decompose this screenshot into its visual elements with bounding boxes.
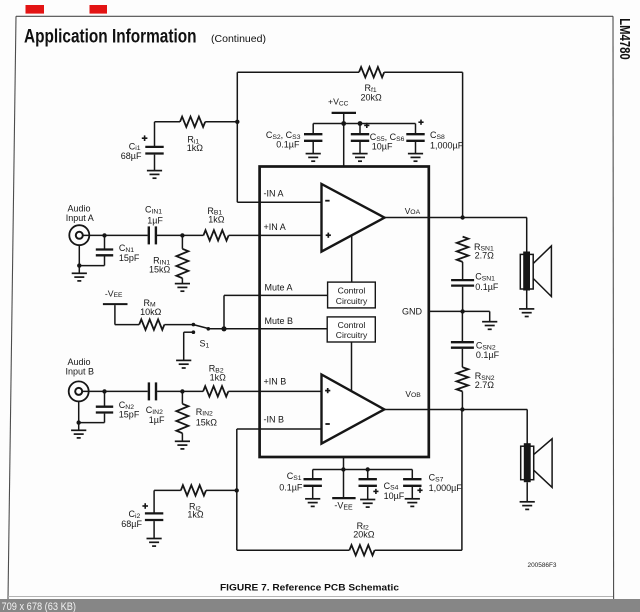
- wire VOA to speaker1 drop: [526, 218, 528, 253]
- svg-text:2.7Ω: 2.7Ω: [475, 251, 495, 261]
- capacitor CS5 CS6: [351, 134, 369, 141]
- capacitor CN2 stem: [104, 391, 106, 405]
- svg-text:10µF: 10µF: [372, 142, 393, 152]
- op-amp U1B triangle: [322, 375, 385, 444]
- wire CSN2 to RSN2: [461, 349, 463, 367]
- supply -VEE rail bar: [103, 303, 128, 305]
- svg-text:0.1µF: 0.1µF: [475, 282, 499, 292]
- svg-text:10kΩ: 10kΩ: [140, 307, 162, 317]
- svg-text:Mute B: Mute B: [265, 316, 294, 326]
- node junction RIN2 tap: [180, 389, 184, 393]
- svg-text:20kΩ: 20kΩ: [361, 93, 383, 103]
- resistor RIN2 stem bottom: [181, 433, 183, 441]
- switch S1 contact: [207, 327, 211, 331]
- page frame right: [612, 16, 615, 599]
- speaker 1 horn: [533, 246, 551, 297]
- capacitor CS7 polarity plus: [417, 488, 422, 493]
- op-amp U1B non-inverting input plus: [325, 388, 330, 393]
- wire -VEE to RM: [115, 324, 139, 326]
- svg-text:2.7Ω: 2.7Ω: [475, 380, 495, 390]
- capacitor CS1: [304, 479, 322, 486]
- wire CS5 stem: [359, 124, 361, 134]
- ground below CS4: [360, 500, 375, 508]
- wire mute A horizontal: [224, 294, 328, 296]
- capacitor CS7: [403, 479, 421, 486]
- capacitor CN1 stem: [104, 235, 106, 248]
- svg-text:-IN A: -IN A: [264, 189, 284, 199]
- capacitor CSN2: [451, 342, 474, 348]
- switch S1 pole: [192, 323, 196, 327]
- svg-text:10µF: 10µF: [384, 491, 405, 501]
- capacitor Ci2 polarity plus: [142, 503, 148, 509]
- node junction mute: [221, 326, 226, 331]
- svg-text:+IN A: +IN A: [264, 222, 286, 232]
- node junction CS5 tap: [358, 121, 363, 126]
- wire CS2 stem: [312, 124, 314, 134]
- node junction VCC drop: [341, 121, 346, 126]
- capacitor CS2 CS3: [304, 134, 322, 141]
- node junction VOB: [460, 407, 464, 411]
- svg-text:1µF: 1µF: [147, 216, 163, 226]
- svg-text:1,000µF: 1,000µF: [430, 141, 464, 151]
- svg-text:1µF: 1µF: [149, 415, 165, 425]
- svg-text:Audio: Audio: [67, 203, 90, 213]
- svg-text:15pF: 15pF: [119, 253, 140, 263]
- capacitor CIN2: [149, 382, 156, 400]
- node junction VEE drop: [341, 467, 345, 471]
- svg-text:15pF: 15pF: [119, 409, 140, 419]
- svg-text:Audio: Audio: [67, 357, 90, 367]
- wire top feedback right segment: [384, 71, 462, 73]
- resistor Ri2: [181, 485, 206, 495]
- wire CS8 stem bottom: [415, 142, 417, 153]
- wire Ri1 right: [205, 121, 237, 123]
- wire top feedback left segment: [237, 71, 359, 73]
- page frame top: [16, 15, 613, 17]
- ground at GND pin: [482, 322, 497, 330]
- resistor RIN1 stem bottom: [181, 278, 183, 283]
- wire feedback right vertical: [462, 72, 464, 217]
- node junction RIN1 tap: [180, 233, 184, 237]
- capacitor Ci1 polarity plus: [142, 135, 148, 141]
- wire Ci2 stem top: [153, 490, 155, 513]
- wire op-amp A to control box A: [351, 236, 353, 283]
- node junction jack A ground: [77, 263, 81, 267]
- op-amp IC U1 outline: [260, 167, 429, 458]
- speaker 2 driver: [521, 446, 534, 480]
- resistor RIN2: [176, 404, 188, 433]
- wire mute riser: [223, 295, 225, 328]
- svg-text:Circuitry: Circuitry: [336, 296, 368, 306]
- wire RSN1 bottom: [462, 262, 464, 279]
- wire CS4 stem bottom: [367, 487, 369, 499]
- capacitor CSN1: [451, 280, 474, 286]
- wire RSN2 bottom: [461, 391, 463, 409]
- resistor RSN1: [457, 237, 469, 262]
- red mark 2 (viewer artifact): [90, 5, 108, 14]
- capacitor CS8: [406, 134, 424, 141]
- node junction Ri1/-INA: [235, 120, 239, 124]
- op-amp U1A non-inverting input plus: [326, 233, 331, 238]
- resistor RB1: [203, 230, 228, 240]
- speaker 2 horn: [534, 439, 552, 488]
- capacitor CS5 CS6 polarity plus: [364, 123, 369, 128]
- node junction CN2 tap: [102, 389, 106, 393]
- wire VOA output: [385, 217, 527, 219]
- svg-text:1kΩ: 1kΩ: [187, 510, 204, 520]
- node junction CN1 tap: [102, 233, 106, 237]
- svg-text:Circuitry: Circuitry: [336, 330, 368, 340]
- ground below jack B: [71, 430, 86, 438]
- resistor RM: [139, 319, 164, 329]
- wire -IN A horizontal: [237, 201, 321, 203]
- wire -VEE drop: [114, 305, 116, 325]
- svg-text:Input A: Input A: [66, 213, 94, 223]
- node junction jack B ground: [77, 420, 81, 424]
- resistor Rf1: [359, 67, 384, 77]
- ground below RIN2: [175, 441, 190, 449]
- svg-text:15kΩ: 15kΩ: [196, 417, 218, 427]
- svg-text:Mute A: Mute A: [265, 282, 293, 292]
- svg-text:+IN B: +IN B: [264, 377, 287, 387]
- svg-text:GND: GND: [402, 307, 423, 317]
- RCA jack A outer: [69, 225, 89, 245]
- ground below CS8: [408, 154, 423, 162]
- wire Ri1 left: [155, 121, 181, 123]
- resistor RIN1: [176, 249, 188, 278]
- ground below speaker 1: [519, 309, 534, 317]
- wire -IN B horizontal: [237, 428, 322, 430]
- node junction VOA: [460, 215, 464, 219]
- wire VOB feedback vertical: [461, 410, 463, 551]
- wire Ri2 left: [154, 489, 181, 491]
- ground below jack A: [72, 273, 87, 281]
- svg-text:709 x 678 (63 KB): 709 x 678 (63 KB): [2, 601, 77, 612]
- wire bottom feedback right: [375, 549, 462, 551]
- resistor RIN1 stem top: [181, 235, 183, 248]
- wire VOB output: [384, 409, 527, 411]
- capacitor CS4: [359, 479, 377, 486]
- ground below speaker 2: [520, 502, 535, 510]
- wire control box B to op-amp B: [351, 342, 353, 391]
- svg-text:-IN B: -IN B: [264, 415, 285, 425]
- wire CS7 stem bottom: [411, 487, 413, 499]
- wire speaker 1 ground stem: [526, 291, 528, 309]
- supply +VCC rail bar: [332, 112, 356, 114]
- svg-text:1kΩ: 1kΩ: [187, 143, 204, 153]
- wire CS2 stem bottom: [312, 142, 314, 153]
- svg-text:1kΩ: 1kΩ: [208, 214, 225, 224]
- svg-text:1kΩ: 1kΩ: [210, 372, 227, 382]
- capacitor Ci1: [145, 147, 163, 154]
- wire GND to CSN2: [461, 311, 463, 341]
- wire RB2 to IC: [228, 390, 321, 392]
- capacitor CN2: [96, 407, 113, 413]
- wire jack A to CIN1: [83, 234, 148, 236]
- svg-text:68µF: 68µF: [121, 519, 142, 529]
- wire bottom feedback left: [237, 549, 350, 551]
- wire VCC distribution rail: [313, 123, 415, 125]
- svg-text:1,000µF: 1,000µF: [429, 483, 463, 493]
- wire VOB to speaker2 drop: [526, 410, 528, 445]
- resistor RSN2: [457, 367, 469, 391]
- wire VCC drop: [343, 114, 345, 167]
- op-amp U1A triangle: [322, 184, 385, 252]
- wire -IN B vertical: [236, 429, 238, 550]
- svg-text:FIGURE 7. Reference PCB Schema: FIGURE 7. Reference PCB Schematic: [220, 583, 399, 593]
- op-amp U1B inverting input minus: [325, 423, 329, 425]
- control circuitry box A: [328, 282, 376, 308]
- wire CN2 bottom: [104, 414, 106, 423]
- svg-text:200586F3: 200586F3: [528, 562, 558, 569]
- page frame bottom faint: [8, 596, 613, 598]
- capacitor CN1: [96, 250, 113, 256]
- wire CN1 bottom: [104, 256, 106, 265]
- wire CS8 stem: [415, 124, 417, 134]
- ground below Ci2: [147, 539, 162, 547]
- switch S1 throw2 wire: [184, 331, 194, 333]
- svg-text:Control: Control: [338, 286, 366, 296]
- svg-text:LM4780: LM4780: [616, 18, 633, 60]
- capacitor CS4 polarity plus: [373, 489, 378, 494]
- wire CS1 stem: [312, 470, 314, 479]
- ground below CS5 CS6: [352, 154, 367, 162]
- wire CS1 stem bottom: [312, 487, 314, 499]
- wire GND down leg: [489, 311, 491, 321]
- resistor RIN2 stem top: [181, 391, 183, 403]
- wire RM to switch: [164, 324, 193, 326]
- ground below RIN1: [175, 284, 190, 292]
- wire CIN2 to RB2: [157, 390, 203, 392]
- wire CS7 stem: [411, 470, 413, 479]
- wire Ci1 stem top: [154, 122, 156, 146]
- wire jack B ground stem: [78, 401, 80, 430]
- wire CS5 stem bottom: [359, 142, 361, 153]
- wire jack B to CIN2: [82, 390, 147, 392]
- red mark 1 (viewer artifact top-left): [26, 5, 45, 14]
- RCA jack B outer: [69, 381, 89, 401]
- wire Ci2 stem bottom: [153, 521, 155, 538]
- wire VEE pin drop: [343, 457, 345, 498]
- wire Ri2 right: [206, 489, 237, 491]
- ground below Ci1: [147, 171, 162, 179]
- wire RB1 to IC: [229, 234, 322, 236]
- ground below CS7: [405, 499, 420, 507]
- svg-text:0.1µF: 0.1µF: [476, 350, 500, 360]
- wire GND pin: [429, 310, 490, 312]
- wire speaker 2 ground stem: [526, 482, 528, 501]
- op-amp U1A inverting input minus: [325, 200, 329, 202]
- wire jack A ground stem: [78, 245, 80, 273]
- RCA jack B inner: [75, 388, 82, 395]
- switch S1 lever: [193, 325, 207, 329]
- resistor Ri1: [180, 117, 205, 127]
- ground below CS1: [305, 499, 320, 507]
- ground below CS2 CS3: [306, 154, 321, 162]
- svg-text:68µF: 68µF: [121, 151, 142, 161]
- wire CIN1 to RB1: [157, 234, 203, 236]
- wire VEE distribution rail: [313, 469, 413, 471]
- wire CSN1 to GND rail: [462, 287, 464, 312]
- wire Ci1 stem bottom: [154, 155, 156, 171]
- page frame left (skewed): [8, 16, 16, 599]
- node junction GND: [460, 309, 464, 313]
- node junction CS4 tap: [366, 467, 370, 471]
- node junction Ri2/-INB: [235, 488, 239, 492]
- supply -VEE bottom bar: [332, 497, 355, 499]
- capacitor CS8 polarity plus: [418, 120, 423, 125]
- svg-text:Application Information: Application Information: [24, 26, 197, 48]
- switch S1 throw2 contact: [192, 330, 196, 334]
- wire feedback left vertical: [236, 72, 238, 202]
- capacitor CIN1: [149, 226, 156, 244]
- wire throw2 to ground: [183, 332, 185, 360]
- svg-text:Input B: Input B: [66, 367, 95, 377]
- status bar: [0, 599, 640, 612]
- wire mute B horizontal: [208, 328, 327, 330]
- svg-text:20kΩ: 20kΩ: [353, 530, 375, 540]
- svg-text:(Continued): (Continued): [211, 33, 266, 45]
- RCA jack A inner: [76, 232, 83, 239]
- svg-text:0.1µF: 0.1µF: [279, 482, 303, 492]
- ground below S1: [176, 360, 191, 368]
- resistor RB2: [203, 386, 228, 396]
- svg-text:15kΩ: 15kΩ: [149, 264, 171, 274]
- wire CS4 stem: [367, 470, 369, 479]
- resistor Rf2: [349, 545, 374, 555]
- capacitor Ci2: [145, 513, 163, 520]
- svg-text:Control: Control: [338, 320, 366, 330]
- svg-text:0.1µF: 0.1µF: [276, 140, 300, 150]
- speaker 1 driver: [520, 254, 533, 289]
- control circuitry box B: [327, 317, 375, 342]
